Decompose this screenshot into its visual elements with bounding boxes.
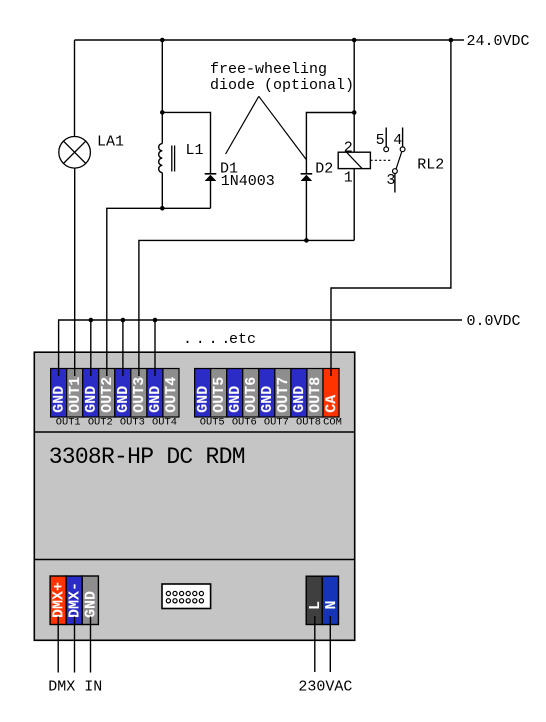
- wire: DMX+ lead: [57, 617, 59, 673]
- svg-text:OUT1: OUT1: [56, 417, 81, 429]
- diode D2: [301, 174, 313, 181]
- wire: GND3 drop: [122, 320, 124, 376]
- wire: DMX- lead: [74, 617, 76, 673]
- terminal block group 2: GND/OUT5..OUT8, CA: [195, 369, 339, 418]
- svg-text:GND: GND: [195, 386, 212, 413]
- svg-text:GND: GND: [83, 386, 100, 413]
- relay RL2 contact circle pin 5: [384, 147, 389, 152]
- svg-text:free-wheeling: free-wheeling: [210, 61, 327, 78]
- svg-text:OUT4: OUT4: [163, 377, 180, 413]
- channel labels under terminals: [56, 417, 342, 429]
- wire: L lead: [314, 616, 316, 672]
- wire: relay coil drop: [353, 40, 355, 152]
- svg-text:DMX-: DMX-: [67, 582, 84, 618]
- relay RL2 contact pin 5 stub: [385, 128, 387, 147]
- DMX terminal vertical labels: [50, 582, 99, 618]
- svg-text:1N4003: 1N4003: [221, 173, 275, 190]
- wire: D2 bottom segment: [305, 181, 307, 240]
- relay RL2 contact pin 4 stub: [402, 128, 404, 147]
- svg-text:OUT8: OUT8: [296, 417, 321, 429]
- svg-text:3308R-HP DC RDM: 3308R-HP DC RDM: [49, 444, 245, 470]
- wire: L1 coil bottom segment: [161, 173, 163, 209]
- wire: L1/D1 loop bottom to OUT2 terminal: [107, 208, 211, 376]
- svg-text:GND: GND: [259, 386, 276, 413]
- svg-text:GND: GND: [51, 386, 68, 413]
- svg-text:OUT4: OUT4: [152, 417, 177, 429]
- svg-text:OUT1: OUT1: [67, 377, 84, 413]
- svg-text:COM: COM: [323, 417, 342, 429]
- svg-text:GND: GND: [147, 386, 164, 413]
- svg-text:OUT7: OUT7: [275, 377, 292, 413]
- svg-text:DMX IN: DMX IN: [48, 679, 102, 696]
- relay RL2 coil: [338, 152, 370, 168]
- svg-text:OUT2: OUT2: [88, 417, 113, 429]
- svg-text:....: ....: [183, 331, 234, 348]
- mains terminal vertical labels: [307, 600, 340, 610]
- wire: 0V GND rail to first GND terminal: [59, 320, 462, 376]
- svg-text:3: 3: [386, 172, 395, 189]
- svg-text:2: 2: [344, 140, 353, 157]
- svg-text:OUT8: OUT8: [307, 377, 324, 413]
- svg-text:OUT2: OUT2: [99, 377, 116, 413]
- wire: D2/coil loop bottom to OUT3 terminal: [139, 240, 354, 376]
- svg-text:OUT6: OUT6: [243, 377, 260, 413]
- svg-text:OUT7: OUT7: [264, 417, 289, 429]
- node: L1 branch junction on 24V rail: [160, 38, 165, 43]
- svg-text:OUT3: OUT3: [131, 377, 148, 413]
- node: GND3 junction on 0V rail: [121, 318, 126, 323]
- wire: L1/D1 loop top: [162, 112, 210, 173]
- wire: lamp top drop: [74, 40, 76, 137]
- inductor L1: [159, 144, 175, 173]
- svg-text:L1: L1: [186, 142, 204, 159]
- relay RL2 contact circle pin 4: [400, 147, 405, 152]
- svg-text:diode (optional): diode (optional): [210, 77, 354, 94]
- wire: D1 bottom segment: [210, 181, 212, 208]
- relay RL2 switch arm: [396, 152, 402, 169]
- relay RL2 contact circle pin 3: [393, 169, 398, 174]
- node: relay/D2 loop top junction: [352, 110, 357, 115]
- svg-text:OUT6: OUT6: [232, 417, 257, 429]
- node: relay branch junction on 24V rail: [352, 38, 357, 43]
- svg-text:LA1: LA1: [97, 134, 124, 151]
- svg-text:D2: D2: [315, 161, 333, 178]
- terminal block group 1: GND/OUT1..OUT4: [51, 369, 179, 418]
- svg-text:1: 1: [344, 169, 353, 186]
- svg-text:OUT5: OUT5: [200, 417, 225, 429]
- mains terminal block L/N: [306, 576, 338, 624]
- wire: D2 loop top: [306, 113, 354, 174]
- label ....etc: [183, 331, 256, 348]
- svg-text:GND: GND: [291, 386, 308, 413]
- svg-text:etc: etc: [229, 331, 256, 348]
- node: L1/D1 loop top junction: [160, 110, 165, 115]
- node: GND2 junction on 0V rail: [89, 318, 94, 323]
- DMX terminal block: [50, 576, 98, 625]
- svg-text:GND: GND: [83, 591, 100, 618]
- svg-text:CA: CA: [323, 395, 340, 413]
- svg-text:OUT3: OUT3: [120, 417, 145, 429]
- svg-text:L: L: [307, 601, 324, 610]
- relay RL2 actuation dashed link: [370, 159, 392, 161]
- wire: GND4 drop: [154, 320, 156, 376]
- module 3308R-HP body: [34, 352, 354, 640]
- wire: 24V rail to CA/COM terminal: [331, 40, 451, 376]
- svg-text:GND: GND: [115, 386, 132, 413]
- node: GND4 junction on 0V rail: [153, 318, 158, 323]
- wire: N lead: [329, 616, 331, 672]
- svg-text:230VAC: 230VAC: [298, 679, 352, 696]
- note: free-wheeling diode (optional): [210, 61, 354, 94]
- svg-text:GND: GND: [227, 386, 244, 413]
- diode D1: [205, 174, 217, 181]
- wire: DMX GND lead: [90, 617, 92, 673]
- wire: GND2 drop: [90, 320, 92, 376]
- svg-text:4: 4: [393, 132, 402, 149]
- svg-text:OUT5: OUT5: [211, 377, 228, 413]
- svg-text:0.0VDC: 0.0VDC: [467, 313, 521, 330]
- wire: lamp bottom to OUT1 terminal: [74, 168, 76, 376]
- pointer line to D1: [226, 96, 259, 154]
- svg-text:N: N: [323, 600, 340, 609]
- lamp LA1: [59, 137, 91, 169]
- svg-text:DMX+: DMX+: [50, 582, 67, 618]
- terminal wire stubs inside terminals: [59, 369, 331, 376]
- node: D2 bottom junction: [304, 238, 309, 243]
- node: CA branch junction on 24V rail: [449, 38, 454, 43]
- wire: L1 branch drop: [161, 40, 163, 144]
- terminal vertical labels group 1: [51, 377, 180, 413]
- relay RL2 contact pin 3 stub: [394, 174, 396, 193]
- svg-text:5: 5: [376, 132, 385, 149]
- programming header connector: [162, 584, 211, 609]
- wire: relay coil bottom: [353, 169, 355, 241]
- node: L1 coil bottom junction: [160, 206, 165, 211]
- svg-text:24.0VDC: 24.0VDC: [467, 33, 530, 50]
- terminal vertical labels group 2: [195, 377, 340, 413]
- pointer line to D2: [259, 96, 306, 159]
- wire: 24V top rail: [75, 39, 465, 41]
- svg-text:RL2: RL2: [417, 156, 444, 173]
